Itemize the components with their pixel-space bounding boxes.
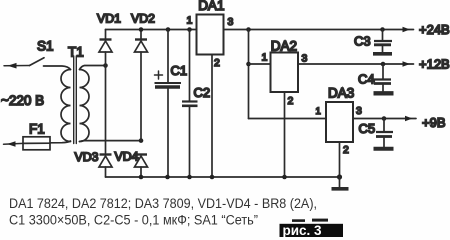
wire: DA3 pin 2 to common rail — [339, 142, 341, 177]
junction: DA3 pin2 / ground stub — [337, 174, 342, 179]
fuse F1 — [23, 137, 50, 150]
junction: C1 on common rail — [165, 175, 170, 180]
ground (chassis) under C3 — [373, 52, 392, 56]
junction: C1 on top rail — [166, 27, 171, 32]
svg-text:S1: S1 — [37, 39, 54, 54]
figure label box: рис. 3 — [280, 224, 344, 237]
svg-text:1: 1 — [316, 106, 321, 117]
svg-text:+9В: +9В — [422, 115, 446, 130]
switch S1 — [30, 58, 71, 70]
svg-text:C1: C1 — [171, 63, 188, 78]
junction: C4 on +12V rail — [381, 62, 386, 67]
svg-text:2: 2 — [288, 95, 294, 107]
svg-text:С1 3300×50В, С2-С5 - 0,1 мкФ;: С1 3300×50В, С2-С5 - 0,1 мкФ; SA1 “Сеть” — [9, 213, 258, 228]
junction: branch to DA2 pin1 — [246, 62, 251, 67]
transformer T1 core — [73, 56, 75, 144]
svg-text:C5: C5 — [359, 121, 376, 136]
junction: secondary bottom / VD2-VD4 column — [139, 138, 144, 143]
capacitor C2 — [182, 30, 198, 178]
wire: common bottom rail — [106, 176, 340, 178]
svg-text:VD4: VD4 — [115, 150, 139, 164]
junction: C2 on top rail — [187, 27, 192, 32]
wire: secondary top lead to VD1 anode node — [80, 66, 106, 70]
ground (chassis) under C4 — [374, 91, 394, 95]
svg-text:рис. 3: рис. 3 — [283, 223, 323, 238]
svg-text:DA2: DA2 — [271, 38, 297, 53]
svg-text:2: 2 — [214, 57, 220, 69]
wire: +24V rail from DA1 pin3 to output arrow — [224, 27, 414, 32]
svg-text:C4: C4 — [358, 72, 375, 87]
wire: +9V rail from DA3 pin3 to output arrow — [353, 116, 416, 121]
ground (chassis) under C5 — [374, 147, 394, 151]
svg-text:VD1: VD1 — [97, 12, 121, 26]
svg-text:+12В: +12В — [419, 57, 450, 72]
svg-text:F1: F1 — [29, 122, 45, 137]
svg-text:1: 1 — [187, 15, 193, 27]
diode VD4 — [135, 155, 148, 178]
svg-text:2: 2 — [343, 144, 349, 156]
diode VD1 — [99, 30, 112, 66]
wire: branch column to DA3 pin 1 — [249, 118, 327, 120]
junction: VD4 on common rail — [139, 175, 144, 180]
wire: DA2 pin 2 to common rail — [284, 92, 286, 177]
svg-text:VD3: VD3 — [75, 150, 99, 164]
svg-text:T1: T1 — [68, 45, 84, 60]
transformer T1 primary winding — [61, 70, 71, 142]
svg-text:3: 3 — [228, 16, 234, 28]
svg-text:DA3: DA3 — [328, 85, 354, 100]
ground (chassis) at common rail end — [332, 177, 349, 189]
junction: branch to DA2/DA3 inputs — [246, 27, 251, 32]
scan artifact dashes above figure box — [292, 219, 305, 222]
wire: fuse to transformer primary bottom — [50, 141, 71, 143]
diode VD3 — [99, 155, 112, 178]
wire: mains input lower with left arrow — [4, 141, 24, 146]
junction: C5 on +9V rail — [382, 116, 387, 121]
transformer T1 secondary winding — [80, 70, 90, 142]
regulator DA2 — [271, 53, 299, 93]
wire: branch column from +24V rail down to DA3 input — [248, 30, 250, 119]
wire: top positive rail from VD1 to DA1 pin1 — [106, 29, 197, 31]
svg-text:+24В: +24В — [419, 22, 450, 37]
svg-text:VD2: VD2 — [131, 12, 155, 26]
wire: secondary bottom lead to VD2-VD4 column — [80, 140, 142, 143]
svg-text:DA1: DA1 — [198, 0, 224, 13]
capacitor C3 — [374, 30, 392, 53]
C1 polarity plus sign — [155, 71, 163, 79]
wire: mains input upper with left arrow — [4, 63, 30, 69]
capacitor C1 (electrolytic) — [155, 30, 182, 178]
regulator DA3 — [326, 102, 353, 142]
junction: DA1 pin2 on common rail — [210, 175, 215, 180]
junction: C2 on common rail — [187, 175, 192, 180]
svg-text:3: 3 — [356, 105, 362, 117]
regulator DA1 — [197, 15, 224, 55]
diode VD2 — [135, 30, 148, 141]
capacitor C4 — [373, 64, 391, 91]
junction: DA2 pin2 on common rail — [282, 175, 287, 180]
svg-text:3: 3 — [302, 53, 308, 65]
junction: secondary top / VD1-VD3 column — [103, 63, 108, 68]
junction: C3 on +24V rail — [380, 27, 385, 32]
wire: +12V rail from DA2 pin3 to output arrow — [298, 61, 414, 66]
svg-text:1: 1 — [262, 52, 268, 64]
wire: branch to DA2 pin 1 — [249, 63, 271, 65]
junction: VD2 on top rail — [139, 27, 144, 32]
svg-text:~220 В: ~220 В — [1, 93, 44, 108]
svg-text:DA1 7824, DA2 7812; DA3 7809,: DA1 7824, DA2 7812; DA3 7809, VD1-VD4 - … — [9, 196, 317, 211]
wire: DA1 pin 2 to common rail — [211, 55, 213, 178]
capacitor C5 — [376, 119, 393, 148]
wire: VD1 column between bridge nodes — [105, 66, 107, 154]
svg-text:C2: C2 — [194, 85, 211, 100]
svg-text:C3: C3 — [354, 34, 371, 49]
